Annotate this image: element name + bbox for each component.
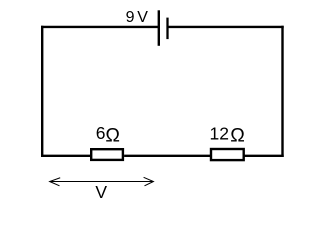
wire bottom-right segment	[245, 155, 284, 157]
resistor R2 12 ohm box	[211, 149, 244, 160]
svg-text:V: V	[137, 9, 148, 26]
svg-text:1: 1	[210, 124, 220, 144]
battery B1 long plate	[158, 10, 160, 46]
svg-text:2: 2	[219, 124, 229, 144]
wire right side	[281, 26, 283, 157]
wire left side	[41, 26, 43, 157]
voltmeter arrow line	[50, 181, 154, 183]
resistor R1 6 ohm box	[91, 149, 123, 160]
battery B1 short plate	[166, 18, 168, 39]
wire bottom-left segment	[41, 155, 91, 157]
voltmeter arrow right head	[144, 177, 154, 186]
voltmeter arrow left head	[50, 178, 61, 186]
svg-text:Ω: Ω	[230, 124, 245, 146]
svg-text:Ω: Ω	[105, 124, 120, 146]
wire bottom-middle segment	[124, 155, 210, 157]
wire top-left segment	[41, 26, 159, 28]
wire top-right segment	[168, 26, 284, 28]
svg-text:V: V	[95, 182, 107, 202]
svg-text:9: 9	[126, 9, 135, 26]
svg-text:6: 6	[96, 123, 106, 143]
